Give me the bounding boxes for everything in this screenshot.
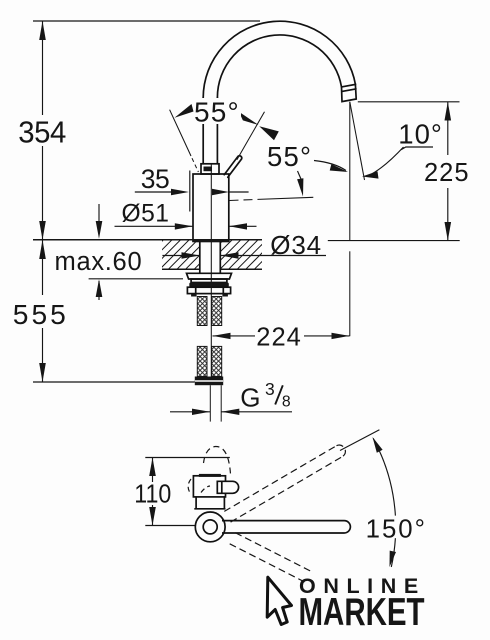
225 top extension — [358, 101, 460, 103]
collar — [201, 164, 219, 174]
bowtie arrow a — [239, 112, 259, 125]
top view hinge band — [199, 474, 221, 477]
mounting nut — [187, 287, 230, 293]
svg-text:35: 35 — [141, 164, 169, 194]
ghost left arc — [188, 479, 191, 494]
spout bar — [222, 521, 350, 533]
arrow 150 top — [373, 437, 383, 453]
counter top line — [33, 239, 262, 241]
150 arc upper — [373, 438, 395, 515]
centerline — [210, 163, 212, 377]
55deg left limit dashes — [192, 158, 198, 172]
swivel circle inner — [203, 520, 217, 534]
spout arc inner — [217, 35, 341, 98]
ghost spout down line a — [235, 533, 313, 573]
arrow 555 bottom — [39, 363, 46, 382]
top view lever — [217, 481, 238, 493]
arrow 224 right — [332, 333, 350, 339]
svg-text:8: 8 — [282, 394, 291, 411]
10deg underline — [401, 147, 433, 150]
arrow 55deg1 left — [175, 104, 194, 118]
counter hatching — [134, 240, 284, 269]
svg-text:55°: 55° — [267, 141, 312, 172]
swivel circle outer — [195, 512, 225, 542]
35 leader left — [135, 191, 173, 193]
countertop — [33, 240, 262, 269]
arrow 225 up — [445, 102, 452, 121]
nut foot right — [222, 294, 228, 297]
svg-text:3: 3 — [265, 379, 275, 399]
shank and mounting — [187, 241, 232, 296]
top view lower band — [195, 497, 197, 509]
arrow max60 up — [96, 279, 103, 297]
225 dimension line — [447, 102, 449, 155]
arrow 10deg — [362, 171, 379, 178]
flange trapezoid — [187, 273, 232, 279]
top view body block — [193, 476, 225, 497]
tilted stream line 10deg — [350, 102, 365, 180]
spout pipe left edge — [202, 98, 204, 164]
150 arc lower — [391, 538, 395, 567]
arrowheads — [39, 21, 451, 415]
35 right stub — [229, 191, 249, 193]
arrow 354 bottom — [39, 221, 46, 240]
arrow G38 left — [221, 409, 239, 415]
arrow 35 right — [171, 189, 189, 195]
hose upper left — [197, 297, 207, 326]
110 top extension — [145, 457, 230, 459]
ghost lever arc — [204, 446, 231, 474]
150 leader line — [340, 430, 379, 451]
arrow 110 top — [149, 458, 156, 477]
nut foot left — [191, 294, 197, 297]
arrow 225 down — [445, 222, 452, 241]
washer ring — [191, 279, 227, 283]
counter bottom right — [220, 268, 262, 270]
110 bottom extension — [145, 525, 196, 527]
hose lower left — [197, 346, 207, 376]
counter bottom left — [162, 268, 200, 270]
nozzle aerator line — [342, 89, 356, 92]
svg-text:Ø34: Ø34 — [270, 230, 322, 260]
arrow 55deg2 down — [297, 178, 303, 196]
shank right — [219, 241, 221, 273]
bottom extension line — [33, 381, 195, 383]
svg-text:55°: 55° — [194, 97, 240, 128]
body bottom line — [193, 240, 229, 242]
10deg arc leader — [368, 147, 404, 176]
spout pipe right edge — [216, 98, 218, 164]
ghost spout up line b — [231, 456, 343, 522]
arrow max60 down — [96, 221, 103, 239]
arrow 150 bottom — [390, 551, 397, 567]
svg-text:max.60: max.60 — [55, 248, 143, 276]
dia34 line — [162, 255, 199, 257]
max60 bottom line — [89, 278, 183, 280]
55deg2 arc to vertical line — [314, 161, 346, 171]
G38 leader right — [221, 411, 292, 413]
arrow 354 top — [39, 21, 46, 40]
vertical stream reference line — [349, 102, 351, 241]
G3/8 tail left line — [209, 385, 211, 421]
hose upper right — [212, 297, 222, 326]
arrow 555 top — [39, 240, 46, 259]
flex hoses — [195, 297, 223, 422]
knockout 55deg1 — [194, 98, 241, 124]
ghost spout down line b — [230, 544, 306, 583]
dia51 leader left — [115, 225, 193, 227]
arrow 35 left — [212, 189, 229, 195]
arrow 110 bottom — [149, 507, 156, 526]
G38 leader left — [170, 411, 210, 413]
svg-text:G: G — [240, 383, 260, 413]
55deg2 down leader — [298, 171, 303, 182]
55deg left limit line — [170, 110, 191, 156]
svg-text:110: 110 — [134, 481, 171, 509]
black band — [189, 283, 229, 288]
svg-text:MARKET: MARKET — [299, 591, 425, 634]
hose end fitting — [195, 377, 223, 386]
G3/8 tail right line — [220, 385, 222, 421]
arrow dia34 right — [182, 252, 200, 258]
max60 top tail — [98, 204, 100, 222]
ghost inner arc — [201, 486, 210, 493]
svg-text:354: 354 — [18, 116, 66, 150]
svg-text:225: 225 — [424, 159, 470, 187]
logo cursor — [267, 577, 291, 624]
ghost spout up line a — [224, 446, 336, 512]
nozzle — [342, 84, 357, 101]
svg-text:555: 555 — [13, 298, 69, 330]
110 dimension line — [152, 458, 154, 483]
max60 bottom tail — [98, 281, 100, 300]
collar logo mark — [204, 167, 213, 172]
dia34 right extension to 225 — [328, 240, 460, 242]
body — [193, 174, 229, 241]
ghost spout up cap — [337, 445, 346, 456]
354/555 dimension line — [42, 21, 44, 115]
svg-text:150°: 150° — [366, 516, 427, 544]
dia51 leader right — [229, 225, 257, 227]
svg-text:10°: 10° — [398, 119, 443, 150]
lever handle — [224, 156, 242, 178]
arrow G38 right — [192, 409, 210, 415]
spout arc outer — [203, 21, 355, 97]
224 dimension line — [213, 335, 256, 337]
arrow dia51 left — [229, 223, 247, 229]
35 extension line — [189, 171, 191, 212]
top extension line — [33, 20, 260, 22]
handle horizontal limit dash line — [230, 199, 259, 200]
arrow 224 left — [213, 333, 231, 339]
arrow 55deg2 arc — [330, 164, 348, 172]
svg-text:224: 224 — [256, 324, 302, 352]
bowtie arrow b — [259, 126, 279, 140]
shank left — [199, 241, 201, 273]
top view lever joint — [221, 481, 223, 493]
svg-text:Ø51: Ø51 — [122, 201, 170, 228]
hose lower right — [212, 346, 222, 376]
arrow dia51 right — [175, 223, 193, 229]
lever axis extension line — [237, 112, 265, 160]
arrow dia34 left — [220, 252, 238, 258]
